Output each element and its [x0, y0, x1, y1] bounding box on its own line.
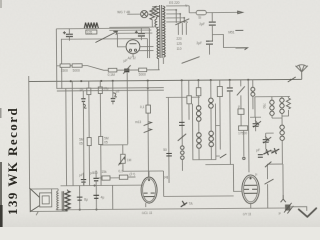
capacitor C20 (electrolytic)	[93, 195, 99, 198]
coil L2	[180, 146, 184, 160]
arrow: aux out 2	[235, 48, 247, 50]
wire: x248 vertical (to output tube)	[247, 80, 250, 172]
svg-text:AZ 11: AZ 11	[127, 56, 137, 60]
wire: tube leads	[109, 26, 154, 28]
speaker cone	[30, 188, 40, 211]
coil L10	[209, 98, 214, 108]
switch S6	[265, 162, 272, 168]
svg-text:WG 7 4B: WG 7 4B	[117, 10, 130, 14]
svg-text:05: 05	[104, 140, 108, 144]
svg-text:125: 125	[176, 42, 182, 46]
resistor R7	[99, 136, 103, 144]
svg-text:4µ: 4µ	[101, 195, 105, 199]
arrow: aux out 1	[235, 29, 243, 31]
svg-text:µ: µ	[238, 104, 240, 108]
can taps	[216, 126, 220, 157]
svg-text:µ: µ	[255, 172, 257, 176]
transformer T1 secondary winding	[163, 6, 165, 57]
wire: bottom bus	[164, 195, 234, 198]
tube V3 UY11	[242, 175, 260, 204]
fork mark	[281, 195, 286, 202]
wire: top-left block top rail	[56, 27, 149, 30]
resistor R11	[217, 87, 222, 97]
coil L3	[196, 106, 201, 122]
capacitor C7 (electrolytic)	[81, 99, 85, 102]
coil L6	[251, 87, 255, 96]
coil L1	[84, 22, 98, 28]
switch S1	[178, 134, 187, 141]
svg-text:M51: M51	[228, 30, 234, 34]
svg-text:110: 110	[176, 47, 181, 51]
resistor R5 (heater dropper)	[150, 8, 155, 20]
resistor R12 (zigzag)	[286, 98, 290, 109]
svg-text:05: 05	[79, 142, 83, 146]
potentiometer P1	[121, 154, 126, 163]
wire: tube V3 leads	[205, 164, 242, 191]
pickup jack	[181, 201, 188, 207]
resistor in primary	[154, 6, 159, 27]
capacitor C8	[98, 87, 102, 94]
svg-text:8µ: 8µ	[84, 198, 88, 202]
resistor R13	[102, 176, 110, 180]
capacitor C22	[238, 109, 244, 115]
antenna	[295, 65, 308, 80]
svg-text:1M: 1M	[127, 158, 132, 162]
tube V1 AZ11	[126, 40, 140, 54]
capacitor C10	[111, 99, 116, 102]
switch S5	[220, 154, 227, 158]
bottom row caps/resistors above H5	[61, 184, 144, 187]
tube V2 UCL11	[141, 177, 157, 203]
svg-text:µ: µ	[279, 211, 281, 215]
capacitor C16	[93, 178, 98, 181]
svg-text:µ500: µ500	[90, 171, 97, 175]
coil L4	[197, 133, 202, 149]
capacitor C1	[66, 34, 73, 36]
svg-text:139 WK Record: 139 WK Record	[5, 107, 20, 215]
resistor R14	[119, 175, 128, 179]
svg-text:50: 50	[163, 148, 167, 152]
wire: tube bottom lead	[145, 203, 147, 207]
svg-text:UCL 11: UCL 11	[142, 211, 153, 215]
IF can 1: resistor R8	[187, 96, 192, 104]
earth arrow	[299, 208, 317, 217]
wire: to earth arrow	[291, 207, 307, 211]
wire: selector drops	[178, 23, 186, 35]
svg-text:1500: 1500	[61, 69, 68, 73]
coil L7	[270, 100, 275, 115]
resistor R9	[196, 88, 201, 96]
svg-text:0,1: 0,1	[118, 169, 123, 173]
variable capacitor CV1	[253, 120, 261, 127]
wire: row 2 links	[87, 65, 160, 70]
wire: drops below 185	[80, 185, 113, 209]
transformer T1 core	[160, 5, 162, 58]
resistor R3	[108, 68, 117, 72]
svg-text:UY 11: UY 11	[243, 212, 252, 216]
capacitor C3	[124, 69, 129, 73]
capacitor C21	[258, 155, 263, 158]
variable capacitor CV2	[263, 136, 271, 143]
wire: h97	[166, 96, 200, 98]
switch: antenna	[288, 77, 296, 82]
wire: x282 drop to output jack	[282, 164, 284, 195]
svg-text:0,1M: 0,1M	[108, 73, 115, 77]
speaker frame	[30, 189, 67, 216]
svg-text:5000: 5000	[139, 73, 146, 77]
resistor R6	[87, 138, 91, 146]
fuse F1	[166, 5, 189, 7]
resistor R2	[72, 64, 82, 67]
svg-text:µ2: µ2	[116, 89, 120, 93]
coil L9	[280, 125, 285, 140]
svg-text:µF: µF	[79, 173, 83, 177]
trimmer arrows	[263, 148, 279, 155]
wire: transformer bottom leads	[159, 58, 164, 70]
capacitor C4	[209, 22, 216, 25]
svg-text:2µF: 2µF	[196, 41, 202, 45]
wire: heater pair	[57, 88, 164, 91]
svg-text:Si: Si	[198, 16, 201, 20]
svg-text:220: 220	[176, 37, 182, 41]
svg-text:ES 220: ES 220	[169, 1, 180, 5]
svg-text:0,1: 0,1	[140, 105, 145, 109]
capacitor C5	[206, 41, 213, 44]
page edge marks	[0, 162, 2, 227]
arrow: mains out	[238, 11, 243, 14]
IF can border	[192, 104, 215, 160]
wire: x148 vertical (grid feed)	[147, 81, 150, 177]
tuning block frame	[255, 96, 290, 117]
wire: resistor row	[57, 65, 87, 67]
wire: C3 drop	[126, 73, 129, 144]
svg-text:750: 750	[262, 103, 266, 109]
wire: right vertical of block	[148, 28, 150, 58]
capacitor C14	[227, 88, 233, 91]
svg-text:m13: m13	[135, 120, 141, 124]
wire: mid link with arrow	[61, 38, 147, 41]
speaker coil box	[40, 193, 52, 207]
capacitor C11	[146, 105, 151, 113]
output transformer winding a	[57, 191, 59, 210]
svg-text:15k: 15k	[101, 170, 107, 174]
wire: verticals left section	[65, 89, 68, 186]
svg-text:17500: 17500	[238, 131, 247, 135]
switch S3	[265, 179, 274, 184]
capacitor C6	[87, 88, 91, 95]
wire: link to right	[212, 34, 235, 47]
svg-text:(2+): (2+)	[129, 172, 135, 176]
polarity marks	[63, 31, 138, 35]
capacitor C2	[138, 34, 145, 36]
capacitor C19 (electrolytic)	[77, 197, 83, 200]
wire: top link to tube	[123, 171, 164, 197]
wire: x168 vertical	[167, 97, 170, 182]
resistor R1	[60, 64, 70, 67]
switch S4	[182, 57, 200, 64]
output transformer winding b	[65, 191, 70, 211]
wire: vertical left pair	[55, 29, 57, 89]
svg-text:105: 105	[87, 30, 93, 34]
svg-text:5000: 5000	[73, 69, 80, 73]
svg-text:µF: µF	[256, 148, 260, 152]
switch S2	[237, 86, 245, 95]
resistor R4	[139, 68, 147, 72]
coil L8	[280, 98, 285, 113]
voltage selector taps	[166, 10, 187, 22]
svg-text:2µF: 2µF	[199, 22, 205, 26]
resistor R15	[239, 126, 248, 131]
capacitor C13	[179, 122, 185, 125]
hatched connector	[285, 204, 290, 210]
main bus	[29, 79, 302, 81]
wire: left border vertical	[28, 76, 31, 189]
transformer T1 primary winding	[157, 27, 159, 59]
wire: x182 vertical	[181, 80, 184, 145]
capacitor C15	[81, 180, 86, 183]
capacitor C12	[166, 153, 172, 156]
coil L5	[209, 131, 214, 147]
dial lamp	[141, 10, 148, 17]
svg-text:µg: µg	[164, 175, 168, 179]
